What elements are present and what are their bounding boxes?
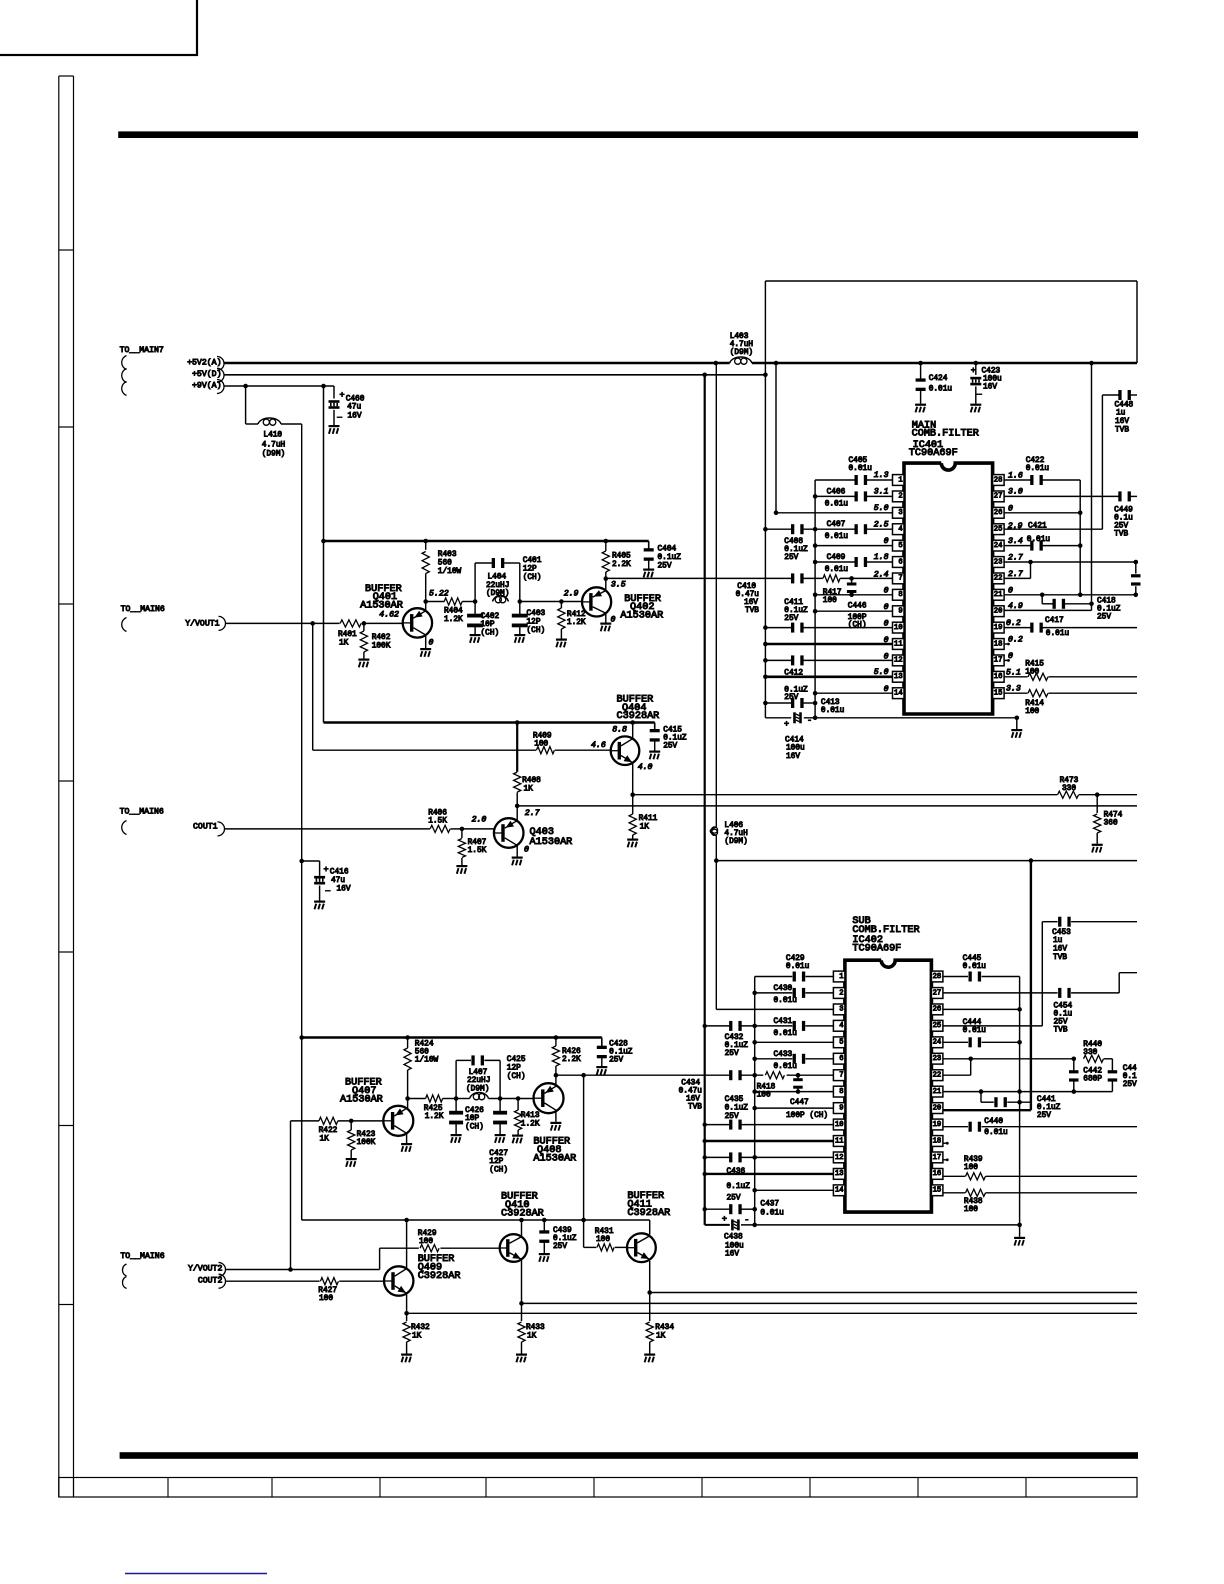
svg-text:25V: 25V <box>663 742 677 750</box>
svg-text:R412: R412 <box>567 611 586 619</box>
svg-text:2.5: 2.5 <box>874 520 889 529</box>
page border box (top-left) <box>0 0 197 55</box>
svg-text:C445: C445 <box>963 955 982 963</box>
svg-text:TVB: TVB <box>1054 1027 1068 1035</box>
wire IC401 ground stub <box>1016 718 1018 729</box>
svg-text:25V: 25V <box>1123 1081 1137 1089</box>
svg-text:47u: 47u <box>347 403 361 411</box>
svg-text:16V: 16V <box>725 1250 739 1258</box>
svg-text:C423: C423 <box>982 367 1001 375</box>
wire collector bus <box>302 1219 650 1221</box>
label IC401 TC90A69F <box>909 440 958 459</box>
wire R473 to edge <box>1079 792 1137 797</box>
svg-text:15: 15 <box>994 690 1003 698</box>
wire line to right edge A <box>633 794 1058 796</box>
label C445 0.01u <box>963 955 987 971</box>
IC401 left pin boxes 1-14 <box>893 475 905 699</box>
svg-text:6: 6 <box>898 558 902 566</box>
svg-text:C3928AR: C3928AR <box>617 711 660 722</box>
ground under C439 <box>539 1253 550 1255</box>
label C404 0.1uZ 25V <box>658 546 682 571</box>
svg-text:16V: 16V <box>1115 418 1129 426</box>
capacitor C424 <box>916 363 926 404</box>
label L406 4.7uH (D9M) <box>724 822 748 846</box>
svg-text:1/10W: 1/10W <box>438 568 462 576</box>
capacitor C449 <box>1118 491 1121 501</box>
svg-text:5: 5 <box>839 1039 843 1047</box>
wire IC401 pin16 line <box>1004 676 1137 678</box>
label R474 360 <box>1104 812 1123 828</box>
svg-text:2: 2 <box>839 989 843 997</box>
svg-text:1K: 1K <box>640 824 650 832</box>
svg-text:R433: R433 <box>526 1324 545 1332</box>
wire sub VCC rail <box>714 858 1137 863</box>
svg-text:(D9M): (D9M) <box>730 349 753 357</box>
svg-text:25V: 25V <box>784 615 798 623</box>
svg-text:23: 23 <box>994 558 1003 566</box>
svg-text:0.01u: 0.01u <box>786 963 810 971</box>
svg-text:3.3: 3.3 <box>1006 685 1021 694</box>
resistor R402 <box>360 623 367 658</box>
svg-text:2: 2 <box>898 493 902 501</box>
svg-text:8: 8 <box>839 1088 843 1096</box>
wire upper rail +9V <box>324 540 649 542</box>
wire cap bus vertical left of IC401 <box>814 480 816 718</box>
svg-text:COMB.FILTER: COMB.FILTER <box>912 428 979 439</box>
svg-text:1.2K: 1.2K <box>521 1121 540 1129</box>
label C418 0.1uZ 25V <box>1097 598 1121 622</box>
svg-text:R408: R408 <box>522 777 541 785</box>
wire R431 branch <box>584 1220 627 1247</box>
svg-text:8: 8 <box>898 591 902 599</box>
IC402 right pin boxes 28-15 <box>931 971 943 1196</box>
wire Q407 collector node line <box>408 1096 533 1101</box>
label C410 0.47u 16V TVB <box>736 583 760 615</box>
wire to Q402 base <box>520 601 582 603</box>
svg-text:100: 100 <box>596 1236 610 1244</box>
capacitor C408 <box>791 524 794 534</box>
svg-text:100: 100 <box>534 740 548 748</box>
svg-text:0.01u: 0.01u <box>825 566 849 574</box>
wire IC402 VCC thick vertical <box>1030 861 1032 1111</box>
label C429 0.01u <box>786 955 810 971</box>
svg-text:R418: R418 <box>757 1084 776 1092</box>
svg-text:23: 23 <box>933 1055 942 1063</box>
label C440 0.01u <box>984 1118 1008 1137</box>
svg-text:25V: 25V <box>658 562 672 570</box>
svg-text:C403: C403 <box>527 610 546 618</box>
svg-text:16V: 16V <box>337 885 351 893</box>
bottom thick separator bar <box>120 1452 1138 1459</box>
wire Q404 collector <box>632 723 634 739</box>
svg-text:100: 100 <box>419 1238 433 1246</box>
svg-text:+: + <box>784 719 789 729</box>
label R424 560 1/10W <box>415 1041 439 1065</box>
svg-text:C434: C434 <box>681 1080 700 1088</box>
label C426 10P (CH) <box>465 1107 484 1132</box>
wire IC402 pin12 line <box>703 1155 834 1160</box>
svg-text:C453: C453 <box>1052 929 1071 937</box>
label R429 100 <box>418 1230 437 1246</box>
svg-text:0.1uZ: 0.1uZ <box>725 1042 749 1050</box>
capacitor C433 <box>793 1054 796 1064</box>
inductor L403 <box>730 357 752 363</box>
ground under C416 <box>314 901 325 903</box>
connector arcs TO__MAIN7 <box>122 356 127 396</box>
capacitor C409 <box>855 557 858 567</box>
ground under C403 <box>514 634 525 636</box>
svg-text:1.2K: 1.2K <box>444 616 463 624</box>
svg-text:5.1: 5.1 <box>1006 668 1021 677</box>
label R473 330 <box>1060 777 1079 793</box>
wire R440 to C443 <box>1104 1058 1113 1060</box>
wire IC401 pin11 line thick <box>763 642 892 647</box>
label C433 0.01u <box>774 1051 798 1071</box>
resistor R406 <box>430 825 450 832</box>
svg-text:2.2K: 2.2K <box>562 1056 581 1064</box>
svg-text:21: 21 <box>933 1088 942 1096</box>
svg-text:(D9M): (D9M) <box>486 590 509 598</box>
capacitor C432 <box>729 1021 732 1031</box>
svg-text:(CH): (CH) <box>489 1167 508 1175</box>
svg-text:10P: 10P <box>481 621 495 629</box>
label C447 100P (CH) <box>786 1099 828 1120</box>
svg-text:C449: C449 <box>1114 507 1133 515</box>
svg-text:18: 18 <box>994 640 1003 648</box>
connector arcs bottom <box>123 1264 127 1289</box>
label R408 1K <box>522 777 541 793</box>
capacitor C440 <box>969 1122 972 1132</box>
label R403 560 1/10W <box>438 551 462 576</box>
svg-text:2.4: 2.4 <box>874 571 889 580</box>
wire IC401 pin14 line <box>813 691 893 696</box>
svg-text:C416: C416 <box>330 869 349 877</box>
label C411 0.1uZ 25V <box>784 599 808 623</box>
label C415 0.1uZ 25V <box>663 726 687 750</box>
svg-text:C427: C427 <box>489 1150 508 1158</box>
wire IC402 pin25 line <box>943 922 1137 1026</box>
ground under R402 <box>358 659 369 661</box>
svg-text:0.1uZ: 0.1uZ <box>663 734 687 742</box>
svg-text:A1530AR: A1530AR <box>340 1094 383 1105</box>
capacitor C416 <box>314 876 325 901</box>
svg-text:10: 10 <box>894 624 903 632</box>
wire IC402 pin27 line <box>943 973 1137 993</box>
label C403 12P (CH) <box>527 610 546 635</box>
svg-text:1K: 1K <box>527 1332 537 1340</box>
label C441 0.1uZ 25V <box>1037 1096 1061 1120</box>
capacitor C413 <box>791 698 794 708</box>
label C436 0.1uZ 25V <box>727 1168 751 1202</box>
svg-text:R431: R431 <box>595 1228 614 1236</box>
svg-text:5.0: 5.0 <box>874 668 889 677</box>
capacitor C405 <box>855 475 858 485</box>
label R440 330 <box>1083 1041 1102 1057</box>
svg-text:COUT2: COUT2 <box>198 1277 223 1286</box>
wire IC401 pin23 line <box>1004 560 1138 565</box>
svg-text:0: 0 <box>884 652 889 661</box>
ground under R413 <box>512 1135 523 1137</box>
label MAIN COMB.FILTER <box>912 420 979 439</box>
label R409 100 <box>533 732 552 748</box>
wire IC401 pin21 line <box>1004 593 1136 598</box>
wire collector node <box>426 601 475 603</box>
resistor R427 <box>320 1278 338 1285</box>
svg-text:R426: R426 <box>562 1048 581 1056</box>
resistor R417 <box>823 575 840 582</box>
svg-text:R429: R429 <box>418 1230 437 1238</box>
wire +9V to L410 <box>246 386 258 424</box>
wire Y/VOUT2 up branch <box>290 1121 292 1270</box>
svg-text:(CH): (CH) <box>527 627 546 635</box>
svg-text:-: - <box>807 715 812 725</box>
connector arc Y/VOUT2 wire <box>219 1263 226 1277</box>
svg-text:0: 0 <box>1008 586 1013 595</box>
svg-text:11: 11 <box>894 640 903 648</box>
svg-text:25V: 25V <box>725 1113 739 1121</box>
svg-text:10P: 10P <box>465 1115 479 1123</box>
svg-text:C409: C409 <box>827 554 846 562</box>
svg-text:0.1uZ: 0.1uZ <box>658 554 682 562</box>
capacitor C460 <box>329 386 340 425</box>
label R432 1K <box>411 1324 430 1340</box>
svg-text:C410: C410 <box>737 583 756 591</box>
label BUFFER Q408 A1530AR <box>533 1137 576 1165</box>
label R431 100 <box>595 1228 614 1244</box>
svg-text:C411: C411 <box>784 599 803 607</box>
label C435 0.1uZ 25V <box>725 1096 749 1121</box>
ground under R433 <box>516 1354 527 1356</box>
svg-text:22uHJ: 22uHJ <box>467 1077 490 1085</box>
label C412 0.1uZ 25V <box>784 669 808 702</box>
wire R417 to pin7 <box>840 577 892 579</box>
svg-text:8.8: 8.8 <box>612 725 627 734</box>
svg-text:22uHJ: 22uHJ <box>486 582 509 590</box>
svg-text:0.2: 0.2 <box>1008 636 1023 645</box>
svg-text:2.7: 2.7 <box>1008 570 1023 579</box>
svg-text:-: - <box>744 1215 749 1225</box>
wire IC402 pin21 line <box>943 1089 1113 1094</box>
resistor R426 <box>552 1038 559 1076</box>
svg-text:R427: R427 <box>318 1287 337 1295</box>
transistor Q403 <box>494 818 524 848</box>
svg-text:L403: L403 <box>730 333 749 341</box>
svg-text:19: 19 <box>994 624 1003 632</box>
svg-text:1u: 1u <box>1053 937 1063 945</box>
capacitor C425 bridge <box>456 1055 500 1098</box>
ground under R432 <box>401 1354 412 1356</box>
capacitor C444 <box>969 1037 972 1047</box>
svg-text:R413: R413 <box>521 1112 540 1120</box>
wire IC402 pin6 line <box>752 1057 833 1062</box>
node dot Q407 collector <box>405 1096 410 1101</box>
capacitor C404 <box>644 541 654 569</box>
junction dots Y/VOUT1 <box>310 621 366 626</box>
svg-text:12P: 12P <box>523 565 537 573</box>
svg-text:560: 560 <box>415 1049 429 1057</box>
wire Q409 emitter <box>404 1295 409 1316</box>
label R402 100K <box>372 634 391 650</box>
wire IC402 pin13 line thick <box>703 1172 834 1176</box>
svg-text:22: 22 <box>933 1072 942 1080</box>
label C422 0.01u <box>1026 457 1050 473</box>
label C423 100u 16V <box>971 366 1002 397</box>
svg-text:25V: 25V <box>1037 1112 1051 1120</box>
capacitor C417 <box>1030 623 1033 633</box>
wire bottom bus 2 <box>522 1302 1138 1304</box>
svg-text:(CH): (CH) <box>481 630 500 638</box>
svg-text:(D9M): (D9M) <box>262 451 285 459</box>
capacitor C428 <box>597 1038 607 1067</box>
wire IC402 ground stub <box>1019 1225 1021 1237</box>
svg-text:0: 0 <box>1008 652 1013 661</box>
svg-text:0.01u: 0.01u <box>984 1129 1008 1137</box>
ground under C460 <box>329 425 340 427</box>
wire C445 down vertical <box>1019 977 1021 1225</box>
svg-text:R405: R405 <box>612 553 631 561</box>
wire mid thick rail <box>324 721 655 723</box>
label R433 1K <box>526 1324 545 1340</box>
resistor R404 <box>444 598 462 605</box>
svg-text:Y/VOUT2: Y/VOUT2 <box>188 1264 222 1274</box>
wire IC402 pin10 line <box>703 1122 834 1126</box>
svg-text:_: _ <box>325 885 331 893</box>
svg-text:2.0: 2.0 <box>472 816 487 825</box>
ground under Q401 <box>420 648 431 650</box>
svg-text:C431: C431 <box>774 1018 793 1026</box>
svg-text:C447: C447 <box>790 1099 809 1107</box>
svg-text:R438: R438 <box>964 1198 983 1206</box>
svg-text:16V: 16V <box>348 413 362 421</box>
label R422 1K <box>319 1127 338 1143</box>
wire IC401 pin5 line <box>813 543 893 548</box>
svg-text:4: 4 <box>898 526 902 534</box>
label C425 12P (CH) <box>507 1056 526 1081</box>
svg-text:(CH): (CH) <box>507 1073 526 1081</box>
wire Q408 collector <box>555 1075 557 1086</box>
svg-text:12: 12 <box>894 657 903 665</box>
svg-text:R473: R473 <box>1060 777 1079 785</box>
svg-text:0: 0 <box>611 616 616 625</box>
svg-text:C433: C433 <box>774 1051 793 1059</box>
label C444 0.01u <box>963 1019 987 1035</box>
svg-text:16: 16 <box>994 673 1003 681</box>
ground under C415 <box>649 751 660 753</box>
resistor R418 <box>765 1072 784 1079</box>
svg-text:16V: 16V <box>983 383 997 391</box>
junction dots collector bus <box>404 1218 586 1223</box>
wire IC401 pin22 line <box>1004 562 1030 578</box>
label R401 1K <box>338 631 357 647</box>
wire Q402 collector <box>605 579 607 591</box>
label L410 4.7uH (D9M) <box>262 432 286 459</box>
svg-text:C440: C440 <box>984 1118 1003 1126</box>
label C414 100u 16V <box>785 736 805 761</box>
svg-text:12P: 12P <box>527 619 541 627</box>
wire C413 line <box>763 701 817 706</box>
svg-text:TC90A69F: TC90A69F <box>852 944 901 955</box>
wire Q401 emitter <box>425 635 427 648</box>
svg-text:L406: L406 <box>724 822 743 830</box>
capacitor C407 <box>855 524 858 534</box>
ground under C426 <box>451 1134 462 1136</box>
svg-text:28: 28 <box>933 973 942 981</box>
wire pin3 drop vertical <box>775 363 777 513</box>
svg-text:L410: L410 <box>263 432 282 440</box>
svg-text:R422: R422 <box>319 1127 338 1135</box>
svg-text:3: 3 <box>839 1006 843 1014</box>
ground under R474 <box>1092 844 1103 846</box>
svg-text:3.5: 3.5 <box>611 581 626 590</box>
svg-text:2.2K: 2.2K <box>612 561 631 569</box>
left margin ruler with ticks <box>59 76 74 1497</box>
svg-text:C3928AR: C3928AR <box>418 1271 461 1282</box>
wire IC402 pin9 line <box>752 1106 833 1111</box>
svg-text:14: 14 <box>894 690 903 698</box>
resistor R434 <box>646 1293 653 1354</box>
svg-text:7: 7 <box>898 575 902 583</box>
transistor Q404 <box>611 736 640 765</box>
wire IC401 pin13 line thick <box>763 675 892 680</box>
svg-text:C428: C428 <box>609 1041 628 1049</box>
svg-text:C437: C437 <box>760 1201 779 1209</box>
node dot L404 right <box>518 599 523 604</box>
svg-text:14: 14 <box>835 1187 844 1195</box>
svg-text:26: 26 <box>994 509 1003 517</box>
svg-text:4.9: 4.9 <box>1008 602 1023 611</box>
svg-text:C430: C430 <box>774 985 793 993</box>
wire IC401 pin9 line <box>813 609 893 614</box>
label R411 1K <box>639 815 658 831</box>
label C401 12P (CH) <box>523 557 542 582</box>
wire C422 down vertical <box>1079 480 1081 595</box>
label C430 0.01u <box>774 985 798 1005</box>
inductor L406 <box>710 827 716 836</box>
wire IC402 pin26 line <box>943 1007 1022 1012</box>
svg-text:11: 11 <box>835 1137 844 1145</box>
resistor R431 <box>597 1244 614 1251</box>
capacitor C427 <box>493 1099 507 1135</box>
svg-text:C408: C408 <box>784 538 803 546</box>
transistor Q410 <box>500 1234 528 1262</box>
wire bottom bus 3 <box>407 1312 1137 1314</box>
svg-text:+: + <box>340 390 345 400</box>
ground under R423 <box>346 1158 357 1160</box>
svg-text:R432: R432 <box>411 1324 430 1332</box>
capacitor C418 <box>1042 595 1094 609</box>
wire COUT1 line <box>225 827 495 832</box>
svg-text:1/10W: 1/10W <box>415 1057 439 1065</box>
label R434 1K <box>655 1324 674 1340</box>
svg-text:R409: R409 <box>533 732 552 740</box>
svg-text:24: 24 <box>994 542 1003 550</box>
wire Q402 emitter <box>605 614 607 623</box>
svg-text:C413: C413 <box>821 699 840 707</box>
wire IC401 pin1 line <box>815 479 892 481</box>
svg-text:25V: 25V <box>609 1057 623 1065</box>
svg-text:330: 330 <box>1083 1049 1097 1057</box>
label C449 0.1u 25V TVB <box>1114 507 1133 539</box>
svg-text:13: 13 <box>835 1170 844 1178</box>
ground under C427 <box>495 1134 506 1136</box>
wire Q411 collector <box>649 1220 651 1235</box>
svg-text:C429: C429 <box>786 955 805 963</box>
label C424 0.01u <box>929 375 953 393</box>
node dot R412 top <box>559 599 564 604</box>
svg-text:25: 25 <box>933 1022 942 1030</box>
capacitor C412 <box>791 655 794 665</box>
label C402 10P (CH) <box>481 613 500 638</box>
